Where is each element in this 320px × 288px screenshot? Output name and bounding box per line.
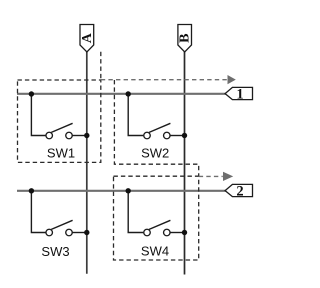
switch SW2 wire to bus B bbox=[170, 135, 184, 137]
switch SW2 contact right bbox=[164, 132, 171, 139]
junction dot SW2 on bus 1 bbox=[126, 91, 131, 96]
switch SW4 wire to bus B bbox=[170, 232, 184, 234]
junction dot SW4 on bus 2 bbox=[126, 188, 131, 193]
switch SW3 contact left bbox=[46, 229, 53, 236]
switch SW4 wire stub bbox=[128, 191, 143, 233]
output flag 1 bbox=[225, 87, 252, 103]
junction dot SW1 on bus 1 bbox=[29, 91, 34, 96]
svg-text:B: B bbox=[177, 34, 192, 43]
junction dot SW1 on bus A bbox=[84, 133, 89, 138]
wire 2 (horizontal output bus 2) bbox=[17, 190, 226, 192]
dashed group box SW4 bbox=[114, 176, 199, 260]
output flag 2 bbox=[225, 184, 252, 200]
switch SW2 contact left bbox=[144, 132, 151, 139]
svg-text:SW2: SW2 bbox=[141, 146, 169, 161]
svg-text:SW1: SW1 bbox=[47, 146, 75, 161]
wire A (vertical input bus A) bbox=[86, 52, 88, 274]
switch SW1 lever bbox=[51, 123, 72, 132]
svg-text:2: 2 bbox=[236, 184, 243, 200]
input flag A bbox=[80, 25, 95, 53]
switch SW1 wire stub bbox=[31, 94, 45, 136]
switch SW2 lever bbox=[149, 123, 170, 132]
dashed group box SW1 bbox=[18, 80, 101, 162]
junction dot SW2 on bus B bbox=[182, 133, 187, 138]
switch SW3 wire stub bbox=[31, 191, 45, 233]
junction dot SW3 on bus A bbox=[84, 230, 89, 235]
switch SW1 contact left bbox=[46, 132, 53, 139]
wire 1 (horizontal output bus 1) bbox=[17, 93, 226, 95]
switch SW3 lever bbox=[51, 220, 72, 229]
signal path arrow to output 2 (gray dashed) bbox=[199, 172, 234, 181]
junction dot SW4 on bus B bbox=[182, 230, 187, 235]
dashed group outline SW2 bbox=[114, 80, 198, 176]
input flag B bbox=[177, 25, 192, 53]
wire B (vertical input bus B) bbox=[184, 52, 186, 275]
switch SW4 lever bbox=[149, 220, 170, 229]
svg-text:SW4: SW4 bbox=[141, 244, 169, 259]
switch SW1 contact right bbox=[66, 132, 73, 139]
svg-text:1: 1 bbox=[236, 87, 243, 103]
switch SW4 contact right bbox=[164, 229, 171, 236]
switch SW1 wire to bus A bbox=[72, 135, 86, 137]
switch SW2 wire stub bbox=[128, 94, 143, 136]
switch SW3 wire to bus A bbox=[72, 232, 86, 234]
signal path arrow to output 1 (gray dashed) bbox=[101, 52, 236, 84]
switch SW4 contact left bbox=[144, 229, 151, 236]
svg-text:A: A bbox=[80, 32, 95, 43]
junction dot SW3 on bus 2 bbox=[29, 188, 34, 193]
svg-text:SW3: SW3 bbox=[41, 244, 69, 259]
switch SW3 contact right bbox=[66, 229, 73, 236]
